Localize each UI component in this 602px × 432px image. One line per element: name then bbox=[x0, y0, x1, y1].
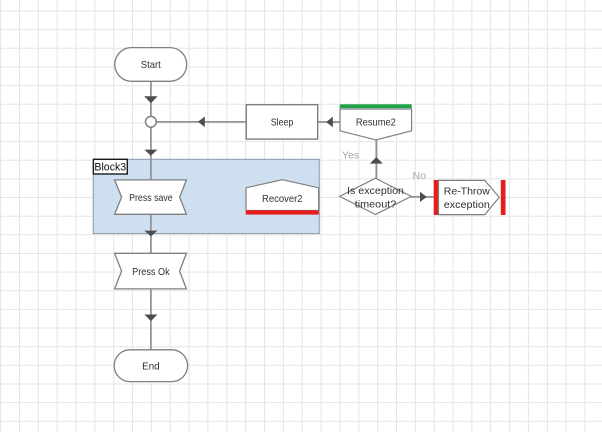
junction node bbox=[146, 116, 157, 127]
node End bbox=[114, 350, 187, 382]
node Recover2 bbox=[246, 180, 319, 215]
wire junction to Press save bbox=[144, 127, 157, 180]
svg-text:Yes: Yes bbox=[342, 149, 359, 161]
svg-text:Is exception: Is exception bbox=[347, 185, 404, 197]
svg-text:Recover2: Recover2 bbox=[262, 193, 303, 205]
node decision diamond bbox=[340, 178, 412, 214]
svg-text:Block3: Block3 bbox=[94, 162, 126, 174]
node Start bbox=[115, 48, 187, 82]
wire Press Ok to End bbox=[144, 289, 157, 350]
svg-text:Start: Start bbox=[141, 59, 161, 71]
node Press save bbox=[115, 180, 187, 214]
svg-text:exception: exception bbox=[444, 199, 490, 211]
svg-text:Press save: Press save bbox=[129, 192, 173, 204]
wire Press save to Press Ok bbox=[144, 214, 157, 253]
svg-text:Press Ok: Press Ok bbox=[132, 266, 170, 278]
svg-text:No: No bbox=[413, 170, 427, 182]
node Re-Throw exception bbox=[434, 180, 506, 215]
wire diamond to Re-Throw (No branch) bbox=[411, 192, 433, 202]
wire Resume2 to Sleep bbox=[318, 117, 340, 127]
container Block3 bbox=[93, 159, 319, 233]
svg-text:Sleep: Sleep bbox=[271, 117, 294, 129]
svg-text:timeout?: timeout? bbox=[355, 199, 397, 211]
svg-text:Re-Throw: Re-Throw bbox=[444, 185, 490, 197]
node Sleep bbox=[246, 105, 317, 139]
wire diamond to Resume2 (Yes branch) bbox=[370, 140, 383, 178]
svg-text:Resume2: Resume2 bbox=[356, 116, 396, 128]
node Press Ok bbox=[115, 253, 187, 289]
node Resume2 bbox=[340, 104, 412, 140]
wire Start to junction bbox=[144, 81, 157, 116]
label Block3 bbox=[93, 159, 127, 174]
wire Sleep to junction bbox=[157, 117, 247, 128]
svg-text:End: End bbox=[142, 361, 160, 373]
